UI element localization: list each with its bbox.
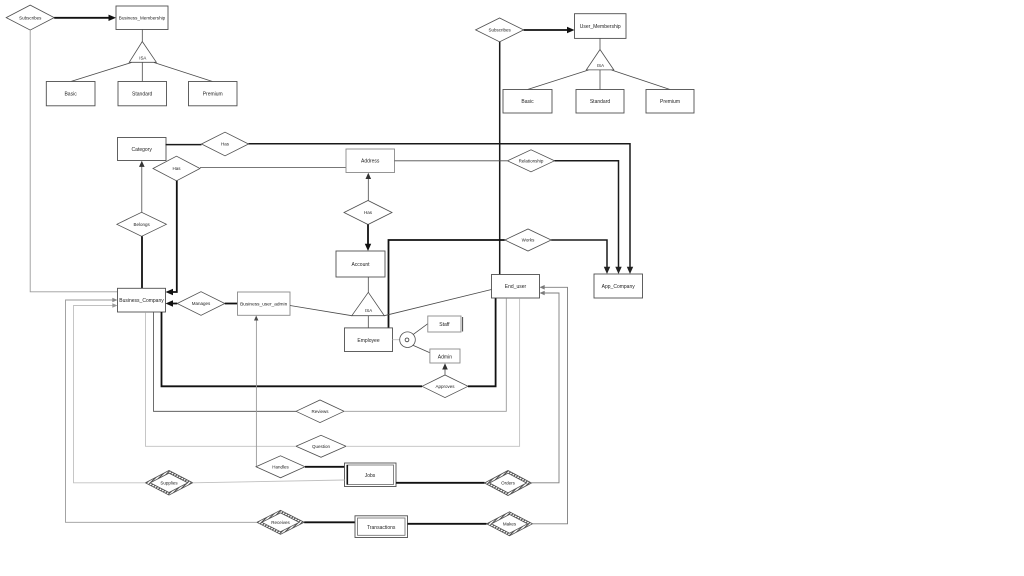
svg-text:Manages: Manages (192, 301, 211, 306)
relationship Has (top) (202, 132, 249, 156)
wire User_Membership to ISA triangle (599, 38, 601, 49)
wire ISA to Premium (154, 63, 213, 82)
wire Reviews to Business_Company (elbow) (154, 312, 297, 411)
wire Has-3 up to Address (arrow) (366, 173, 372, 201)
wire Orders up to End_user (arrow) (532, 291, 560, 483)
entity Premium (left) (189, 82, 238, 106)
ISA triangle (left) (129, 42, 156, 63)
svg-text:Business_user_admin: Business_user_admin (240, 302, 288, 308)
entity App_Company (594, 274, 643, 298)
wire Reviews to End_user (elbow) (344, 298, 506, 411)
relationship Relationship (508, 150, 555, 172)
wire Subscribes-left to Business_Membership (arrow) (54, 15, 116, 21)
svg-text:Relationship: Relationship (519, 159, 544, 164)
wire Question to End_user (elbow) (346, 298, 520, 446)
wire Makes up to End_user (arrow) (533, 285, 568, 524)
relationship Orders (double) (485, 471, 532, 496)
svg-text:Business_Company: Business_Company (119, 298, 164, 304)
entity Category (118, 138, 167, 161)
relationship Receives (double) (257, 510, 304, 534)
svg-text:Has: Has (364, 210, 373, 215)
svg-text:Transactions: Transactions (367, 525, 396, 531)
svg-text:Business_Membership: Business_Membership (119, 16, 166, 21)
circle connector (o) (400, 332, 416, 348)
wire Handles to Jobs (thick) (305, 466, 345, 468)
wire ISA to Premium (right) (612, 70, 671, 90)
wire Subscribes-right down to End_user (499, 42, 501, 275)
entity Premium (right) (646, 90, 694, 114)
relationship Manages (177, 292, 225, 316)
svg-text:Handles: Handles (272, 465, 289, 470)
wire Supplies left elbow up to Business_Company (arrow) (74, 303, 146, 483)
wire Business_Company down to Approves (thick elbow) (162, 312, 423, 386)
wire ISA to Standard (141, 62, 143, 81)
entity Standard (right) (576, 90, 624, 114)
relationship Approves (422, 375, 468, 398)
svg-text:Makes: Makes (503, 522, 517, 527)
wire Has (top) to App_Company (arrow) (249, 144, 634, 274)
svg-text:Premium: Premium (203, 91, 223, 97)
svg-text:Orders: Orders (501, 481, 516, 486)
wire Account to ISA-mid apex (367, 277, 369, 292)
wire Subscribes-right to User_Membership (arrow) (524, 27, 575, 33)
wire ISA-mid to End_user (diagonal) (384, 290, 491, 316)
svg-text:Jobs: Jobs (365, 473, 376, 479)
svg-text:Has: Has (221, 142, 230, 147)
svg-text:Receives: Receives (271, 520, 290, 525)
svg-text:Reviews: Reviews (311, 409, 329, 414)
svg-text:Category: Category (132, 147, 153, 153)
entity Admin (430, 349, 460, 363)
ISA triangle (middle) (352, 292, 385, 315)
svg-text:Admin: Admin (438, 354, 452, 360)
wire Address to Relationship (395, 160, 508, 162)
svg-text:Basic: Basic (521, 99, 534, 105)
wire Business_user_admin to ISA-mid (diagonal) (290, 306, 352, 316)
wire Approves up to Admin (arrow) (442, 363, 448, 375)
entity Business_user_admin (238, 292, 291, 315)
svg-text:Standard: Standard (590, 99, 611, 105)
entity Basic (left) (46, 82, 95, 106)
wire Works to App_Company (arrow) (551, 240, 610, 274)
svg-text:End_user: End_user (505, 284, 527, 290)
relationship Reviews (296, 400, 344, 423)
wire ISA-mid to Employee (367, 316, 369, 328)
relationship Has (second) (153, 156, 200, 181)
relationship Handles (256, 456, 305, 478)
wire ISA to Basic (right) (528, 70, 589, 90)
entity Account (336, 251, 385, 277)
svg-text:Employee: Employee (357, 338, 379, 344)
svg-text:Subscribes: Subscribes (488, 28, 511, 33)
wire Business_user_admin down to Handles (arrow up) (254, 316, 258, 467)
entity Basic (right) (503, 90, 552, 114)
wire circle to Staff (diagonal) (413, 324, 427, 335)
relationship Belongs (117, 212, 167, 236)
wire Manages to Business_user_admin (225, 303, 238, 305)
svg-text:Subscribes: Subscribes (19, 15, 42, 20)
wire Subscribes-left down to Business_Company (30, 30, 117, 292)
wire Belongs down to Business_Company (141, 236, 143, 288)
svg-text:Has: Has (172, 166, 181, 171)
svg-text:Works: Works (522, 238, 535, 243)
wire Category to Has (top) (166, 144, 202, 146)
wire Supplies to Jobs (193, 480, 345, 483)
entity Employee (345, 328, 393, 352)
relationship Question (296, 435, 346, 457)
entity Jobs (double) (345, 463, 397, 487)
wire Works to Employee (thick elbow) (389, 240, 505, 328)
entity User_Membership (575, 14, 627, 39)
entity Staff (428, 316, 463, 332)
svg-text:ISA: ISA (139, 55, 146, 60)
wire Receives to Transactions (thick) (304, 521, 355, 523)
wire Receives left elbow up to Business_Company (arrow) (66, 298, 257, 523)
relationship Works (505, 229, 551, 251)
svg-text:ISA: ISA (597, 63, 604, 68)
svg-text:Belongs: Belongs (133, 222, 150, 227)
relationship Has (third, above Account) (344, 201, 392, 225)
wire Has-3 down to Account (arrow) (365, 225, 371, 252)
wire Question to Business_Company (elbow) (146, 312, 297, 446)
entity Business_Membership (116, 6, 168, 30)
relationship Makes (double) (487, 512, 533, 536)
relationship Subscribes (left) (6, 5, 54, 30)
wire Manages to Business_Company (arrow) (166, 300, 178, 306)
wire circle to Admin (diagonal) (413, 345, 430, 353)
svg-text:User_Membership: User_Membership (580, 24, 621, 30)
svg-text:Address: Address (361, 159, 380, 165)
svg-text:Question: Question (312, 444, 331, 449)
relationship Supplies (double) (145, 471, 192, 496)
wire Belongs up to Category (arrow) (139, 161, 145, 213)
wire Relationship to App_Company (arrow) (555, 161, 622, 274)
entity Standard (left) (118, 82, 167, 106)
wire Has-2 to Address (200, 167, 346, 169)
wire ISA to Basic (71, 63, 132, 82)
svg-text:Staff: Staff (439, 322, 450, 328)
wire Has-2 down to Business_Company (arrow) (166, 181, 177, 295)
wire Business_Membership to ISA triangle (141, 30, 143, 42)
wire Transactions to Makes (thick) (408, 523, 487, 525)
wire ISA to Standard (right) (599, 70, 601, 90)
svg-text:Supplies: Supplies (160, 481, 178, 486)
relationship Subscribes (right) (476, 18, 524, 42)
svg-text:Basic: Basic (64, 91, 77, 97)
svg-text:Account: Account (351, 262, 370, 268)
wire Employee to circle (393, 339, 400, 341)
entity Transactions (double) (355, 516, 408, 538)
entity Business_Company (118, 288, 166, 312)
entity End_user (492, 275, 540, 299)
wire Approves to End_user (thick elbow) (468, 298, 496, 386)
entity Address (346, 149, 395, 173)
svg-text:Approves: Approves (435, 384, 455, 389)
svg-text:Standard: Standard (132, 91, 153, 97)
wire Jobs to Orders (thick) (396, 482, 485, 484)
svg-text:ISA: ISA (365, 308, 372, 313)
svg-text:App_Company: App_Company (602, 284, 636, 290)
svg-text:Premium: Premium (660, 99, 680, 105)
ISA triangle (right) (586, 50, 614, 70)
